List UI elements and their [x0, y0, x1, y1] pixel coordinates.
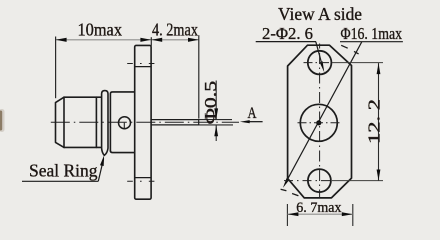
- svg-text:6. 7max: 6. 7max: [296, 200, 342, 216]
- svg-text:4. 2max: 4. 2max: [152, 20, 198, 40]
- svg-text:10max: 10max: [78, 20, 123, 40]
- svg-text:Φ0.5: Φ0.5: [201, 81, 220, 125]
- svg-text:Φ16. 1max: Φ16. 1max: [341, 24, 403, 43]
- svg-text:12. 2: 12. 2: [364, 99, 383, 144]
- svg-text:View A side: View A side: [278, 4, 362, 24]
- svg-text:2-Φ2. 6: 2-Φ2. 6: [262, 24, 313, 43]
- svg-text:A: A: [248, 105, 257, 122]
- svg-text:Seal Ring: Seal Ring: [29, 160, 98, 180]
